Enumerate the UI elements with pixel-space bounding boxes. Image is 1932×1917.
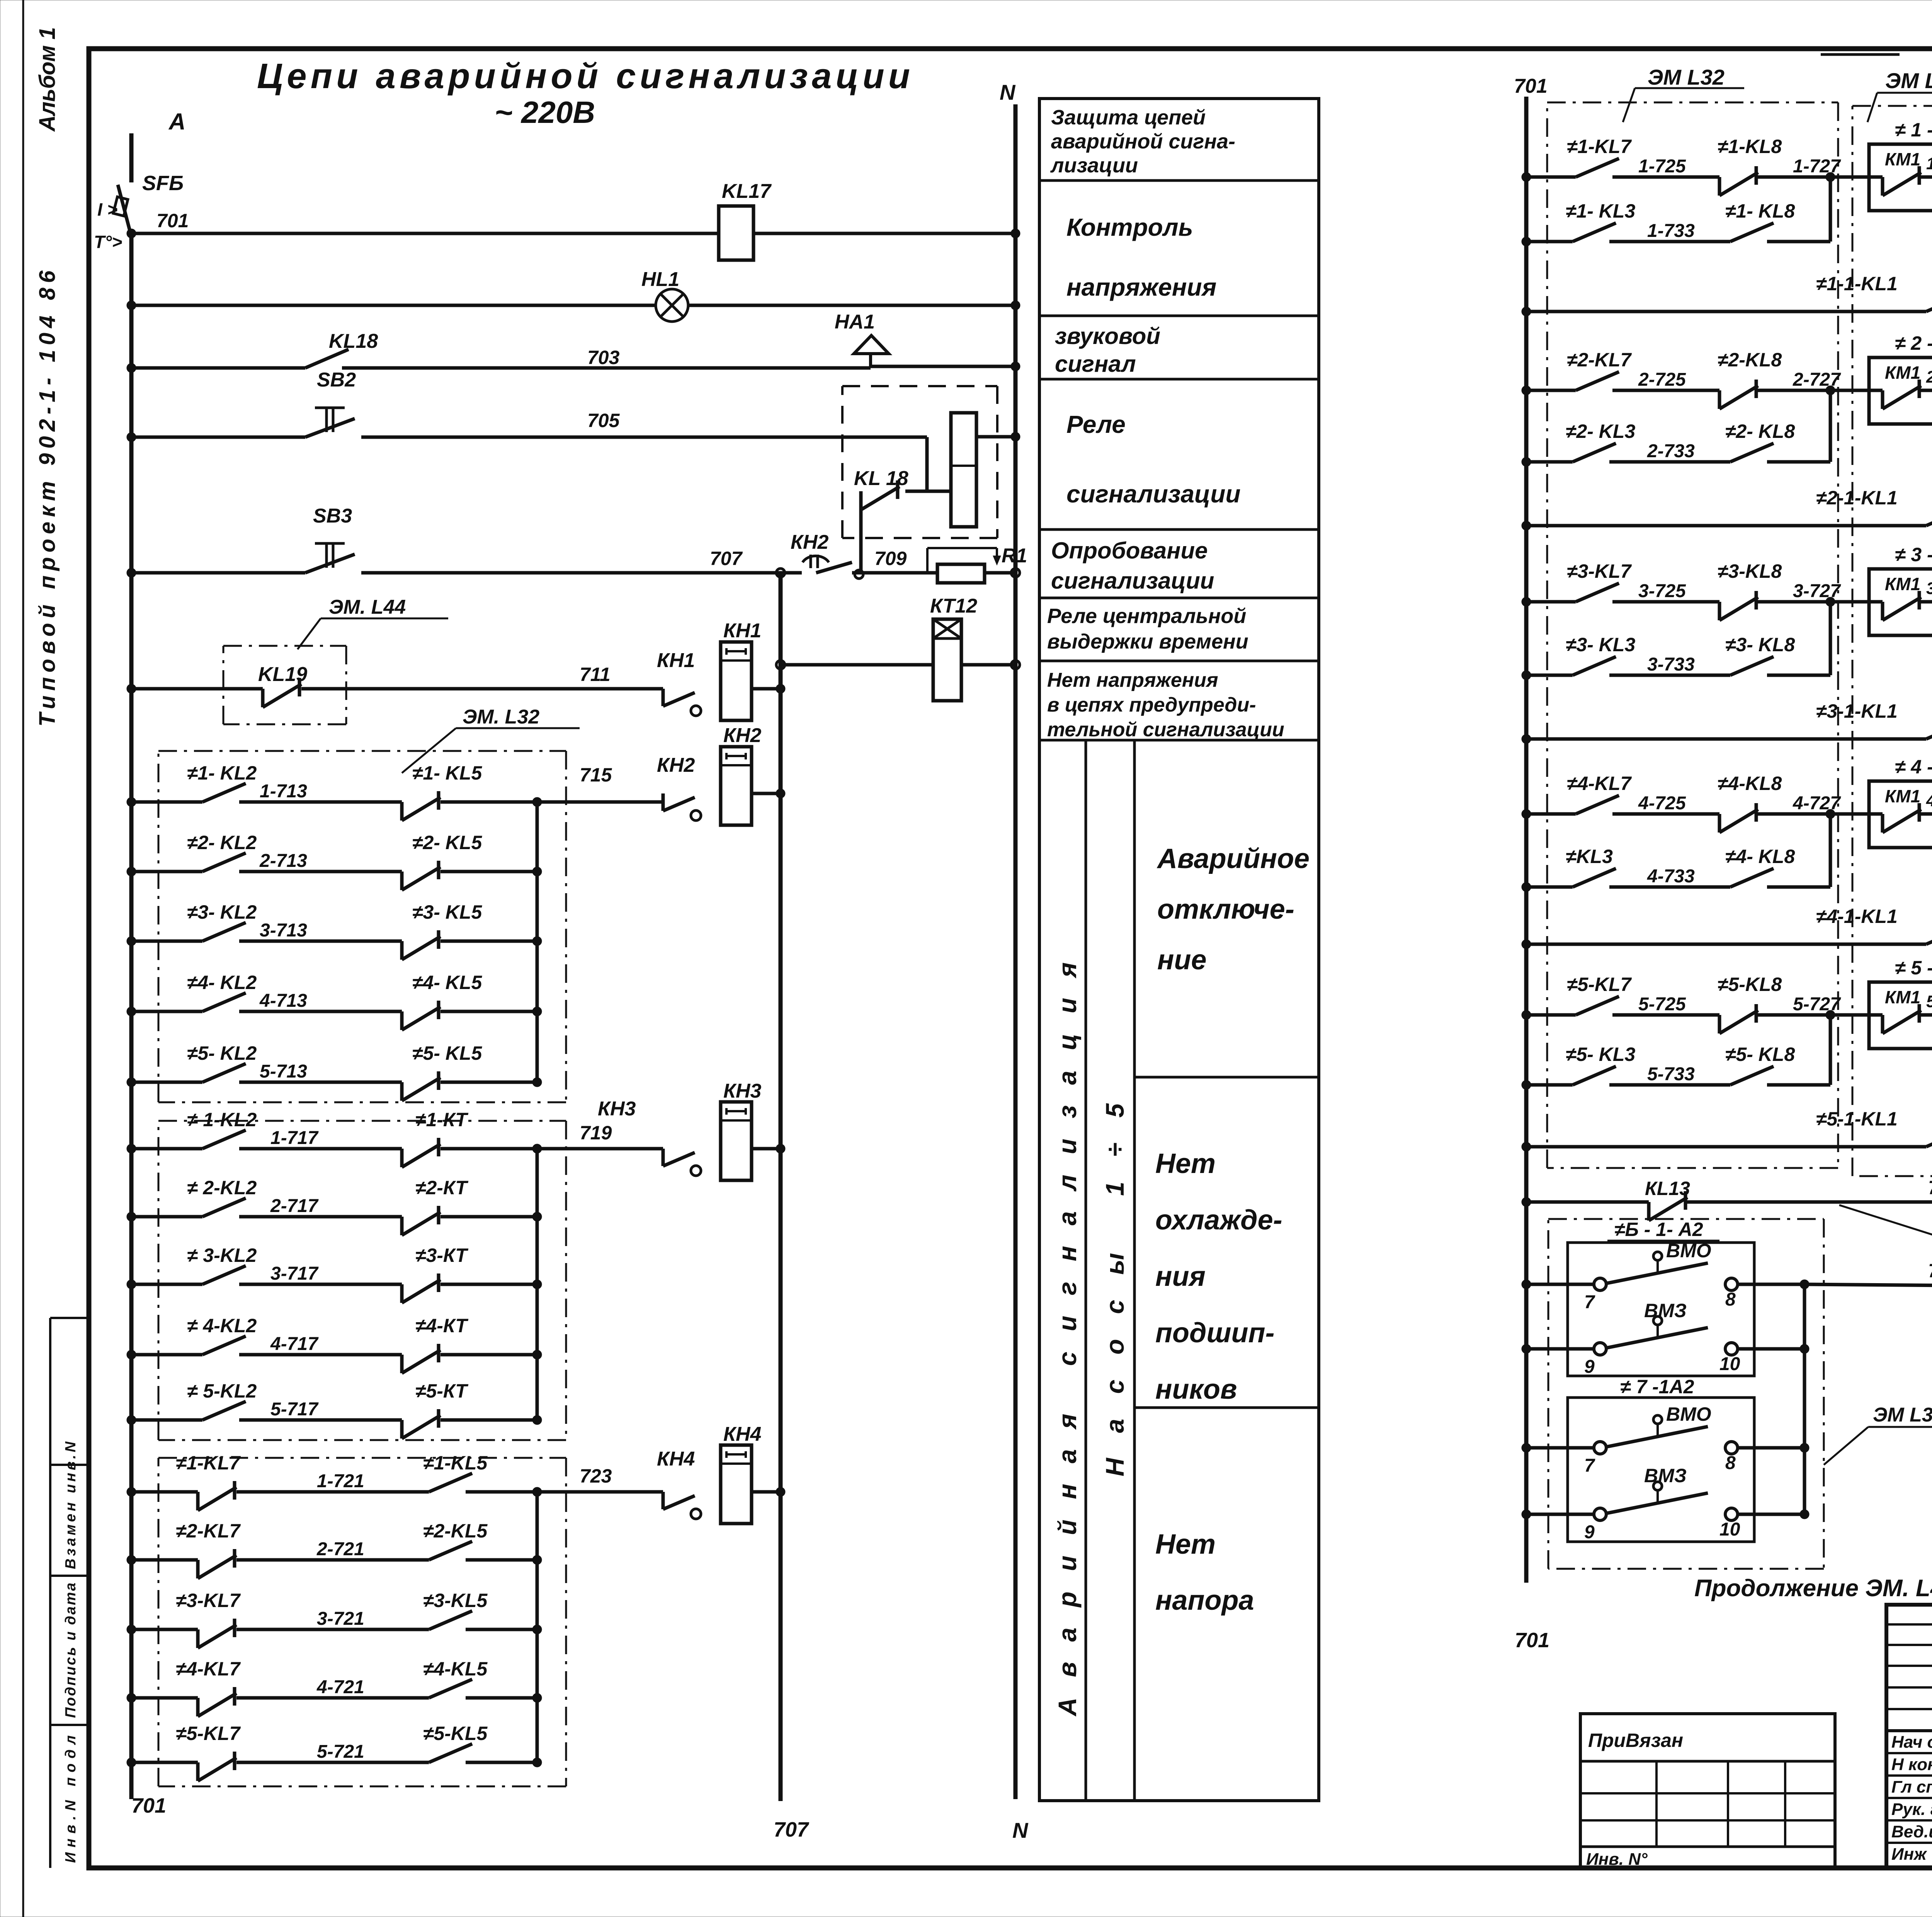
svg-text:КТ12: КТ12	[930, 595, 977, 617]
label ЭМ.L44 left	[298, 596, 448, 649]
svg-text:SFБ: SFБ	[142, 172, 184, 195]
button KН3	[663, 1102, 785, 1180]
svg-text:КН1: КН1	[723, 620, 761, 642]
label #3-KL8 upper	[1718, 560, 1782, 582]
svg-text:701: 701	[1514, 75, 1548, 97]
svg-text:НА1: НА1	[835, 311, 875, 333]
svg-text:ВМЗ: ВМЗ	[1644, 1465, 1687, 1486]
left margin label: Взамен инв.N	[63, 1441, 79, 1569]
svg-text:SB3: SB3	[313, 505, 352, 527]
node 709	[855, 570, 863, 579]
label #1-KL8 lower	[1725, 200, 1795, 222]
text Защита цепей	[1050, 106, 1235, 177]
label ЭМ L37	[1824, 1404, 1932, 1465]
svg-text:715: 715	[580, 764, 612, 786]
svg-text:Нет: Нет	[1155, 1529, 1216, 1560]
svg-text:HL1: HL1	[641, 268, 679, 291]
label #4-1-A1	[1895, 756, 1932, 778]
svg-text:N: N	[1000, 80, 1016, 104]
wire ВМО g6	[1522, 1252, 1809, 1290]
label #4-KL3	[1566, 846, 1613, 867]
label 4-713	[259, 991, 307, 1011]
label #5-KL8 upper	[1718, 974, 1782, 995]
svg-text:5-721: 5-721	[317, 1742, 364, 1762]
middle table row line 7	[1039, 739, 1319, 742]
svg-text:≠1- KL8: ≠1- KL8	[1725, 200, 1795, 222]
text Аварийная сигнализация (mid rotated)	[1053, 962, 1082, 1717]
contact KL18	[305, 349, 349, 368]
label KL18	[329, 330, 378, 352]
svg-text:≠4- KL5: ≠4- KL5	[412, 972, 482, 993]
svg-text:≠4-1-KL1: ≠4-1-KL1	[1816, 906, 1898, 927]
label Продолжение ЭМ.L44	[1694, 1575, 1932, 1602]
contactor box #3-1-A1	[1869, 569, 1932, 635]
label #1-1-KL1	[1816, 273, 1898, 295]
label #7-1A2	[1613, 1376, 1725, 1398]
svg-text:Реле центральной: Реле центральной	[1047, 604, 1246, 628]
svg-text:1-725: 1-725	[1638, 156, 1686, 177]
label #1-KL5 (721)	[423, 1452, 488, 1474]
label N top	[1000, 80, 1016, 104]
svg-text:ВМЗ: ВМЗ	[1644, 1300, 1687, 1321]
label ВМЗ g6	[1644, 1300, 1687, 1321]
label SB2	[317, 369, 356, 391]
label 3-729	[1926, 579, 1932, 598]
wire 3-721	[127, 1611, 542, 1648]
label I>	[97, 199, 117, 220]
label #4-KL8 upper	[1718, 773, 1782, 794]
label ЭМ.L32 left	[402, 706, 580, 773]
svg-text:Нет напряжения: Нет напряжения	[1047, 669, 1218, 691]
svg-text:сигнализации: сигнализации	[1051, 568, 1214, 594]
svg-text:4-721: 4-721	[316, 1677, 364, 1697]
svg-text:7: 7	[1584, 1456, 1595, 1476]
label HL1	[641, 268, 679, 291]
svg-text:≠ 5-KL2: ≠ 5-KL2	[187, 1380, 257, 1402]
middle table row line 6	[1039, 660, 1319, 662]
svg-text:≠Б - 1- А2: ≠Б - 1- А2	[1614, 1219, 1703, 1240]
relay coil KL17	[719, 206, 753, 260]
wire HL1	[127, 301, 1020, 310]
label 701	[156, 210, 189, 232]
wire 2-733	[1522, 386, 1835, 466]
svg-text:напряжения: напряжения	[1066, 273, 1216, 301]
label 711	[580, 664, 611, 685]
svg-text:1-713: 1-713	[260, 781, 307, 802]
label #2-1-A1	[1895, 332, 1932, 354]
wire 703	[127, 362, 1020, 373]
wire 4-721	[127, 1679, 542, 1716]
svg-text:≠3-KL7: ≠3-KL7	[176, 1590, 241, 1611]
svg-text:≠5-КТ: ≠5-КТ	[415, 1380, 469, 1402]
label #2-KL5 (713)	[412, 832, 482, 853]
svg-text:≠2-KL7: ≠2-KL7	[176, 1520, 241, 1542]
label 4-725	[1638, 793, 1686, 814]
svg-text:1-717: 1-717	[270, 1128, 319, 1148]
label KН2 contact	[657, 754, 695, 776]
svg-text:3-733: 3-733	[1647, 654, 1695, 675]
title: Цепи аварийной сигнализации	[257, 56, 910, 96]
label #3-KL5 (721)	[423, 1590, 488, 1611]
label #4-KL5 (713)	[412, 972, 482, 993]
svg-text:≠2-1-KL1: ≠2-1-KL1	[1816, 487, 1898, 509]
svg-text:ников: ников	[1155, 1374, 1237, 1405]
svg-text:≠5- KL3: ≠5- KL3	[1566, 1044, 1635, 1065]
svg-text:Инв. N°: Инв. N°	[1586, 1850, 1648, 1869]
wire into KL18 coil	[927, 437, 951, 491]
label 1-733	[1647, 221, 1695, 241]
svg-text:≠ 7 -1А2: ≠ 7 -1А2	[1620, 1376, 1694, 1398]
label #1-KL5 (713)	[412, 762, 482, 784]
resistor R1	[927, 548, 1001, 583]
label R1	[1002, 545, 1027, 567]
label KН2 box	[723, 724, 762, 747]
label ЭМ L36	[1839, 1205, 1932, 1244]
left margin label: Типовой проект	[35, 270, 60, 727]
svg-text:Реле: Реле	[1066, 410, 1126, 438]
dash-dot box ЭМ L32 right	[1547, 102, 1838, 1168]
svg-text:707: 707	[774, 1818, 810, 1841]
subtitle: ~220В	[495, 95, 595, 129]
svg-text:ПриВязан: ПриВязан	[1588, 1730, 1683, 1751]
svg-text:1-727: 1-727	[1793, 156, 1841, 177]
svg-text:Опробование: Опробование	[1051, 538, 1208, 564]
svg-text:5-733: 5-733	[1647, 1064, 1695, 1084]
label SB3	[313, 505, 352, 527]
label 705	[587, 410, 620, 431]
dash-dot box ЭМ.L32 left	[158, 751, 566, 1102]
svg-text:3-713: 3-713	[260, 920, 307, 941]
wire coil to N	[976, 432, 1020, 441]
svg-text:4-717: 4-717	[270, 1334, 319, 1354]
label 8 g7	[1725, 1453, 1736, 1473]
wire 5-725	[1522, 996, 1869, 1033]
svg-text:в цепях предупреди-: в цепях предупреди-	[1047, 694, 1256, 716]
label KM1 g3	[1885, 574, 1920, 594]
svg-text:Альбом 1: Альбом 1	[35, 27, 60, 132]
label 5-727	[1793, 994, 1841, 1015]
svg-text:≠3-KL8: ≠3-KL8	[1718, 560, 1782, 582]
label #2-KL8 upper	[1718, 349, 1782, 371]
svg-text:KL18: KL18	[329, 330, 378, 352]
label 3-713	[260, 920, 307, 941]
label #5-KL2 (717)	[187, 1380, 257, 1402]
svg-text:КМ1: КМ1	[1885, 574, 1920, 594]
svg-text:≠2- KL5: ≠2- KL5	[412, 832, 482, 853]
label #5-1-A1	[1895, 957, 1932, 979]
label 709	[874, 548, 907, 569]
label N bottom	[1012, 1818, 1029, 1842]
svg-text:≠5- KL2: ≠5- KL2	[187, 1042, 257, 1064]
svg-text:≠5- KL5: ≠5- KL5	[412, 1042, 482, 1064]
left margin label: Альбом 1	[35, 27, 60, 132]
dashed box KL18 relay	[842, 386, 997, 538]
svg-text:≠5- KL8: ≠5- KL8	[1725, 1044, 1795, 1065]
label 8 g6	[1725, 1289, 1736, 1310]
limit switch box #7-1A2	[1568, 1398, 1754, 1542]
svg-text:701: 701	[156, 210, 189, 232]
svg-text:≠ 4 - 1 - А1: ≠ 4 - 1 - А1	[1895, 756, 1932, 778]
middle table row line 2	[1039, 315, 1319, 317]
label 737	[1928, 1260, 1932, 1282]
svg-text:9: 9	[1584, 1357, 1595, 1377]
svg-text:≠4-КТ: ≠4-КТ	[415, 1315, 469, 1336]
svg-text:Гл спец: Гл спец	[1891, 1777, 1932, 1796]
wire 709	[859, 571, 1015, 575]
wire 735	[1522, 1191, 1932, 1221]
staff row Инж	[1891, 1845, 1932, 1864]
wire 705	[127, 432, 927, 442]
label KН3 box	[723, 1080, 762, 1102]
svg-text:КН4: КН4	[723, 1423, 762, 1445]
button KН1	[663, 642, 785, 720]
label 2-727	[1793, 369, 1841, 390]
limit switch box #6-1-A2	[1568, 1243, 1754, 1376]
label 707 bottom middle	[774, 1818, 810, 1841]
svg-text:КН4: КН4	[657, 1448, 695, 1470]
svg-text:А: А	[168, 109, 185, 134]
svg-text:≠1- KL3: ≠1- KL3	[1566, 200, 1635, 222]
svg-text:сигнал: сигнал	[1055, 351, 1136, 377]
label KL18 coil	[854, 467, 908, 490]
middle table row line 3	[1039, 378, 1319, 381]
svg-text:707: 707	[710, 548, 743, 569]
label 4-727	[1793, 793, 1841, 814]
svg-text:10: 10	[1719, 1519, 1740, 1540]
svg-text:≠1-КТ: ≠1-КТ	[415, 1109, 469, 1130]
wire 5-721	[127, 1744, 542, 1781]
svg-text:КМ1: КМ1	[1885, 363, 1920, 383]
text Реле сигнализации	[1066, 410, 1241, 508]
pushbutton SB2	[305, 408, 355, 437]
attachment box	[1580, 1714, 1835, 1868]
dash-dot box ЭМ L44 right	[1548, 1219, 1824, 1569]
svg-text:≠ 1 - 1 - А1: ≠ 1 - 1 - А1	[1895, 119, 1932, 141]
wire 4-725	[1522, 795, 1869, 833]
svg-text:≠ 3-KL2: ≠ 3-KL2	[187, 1245, 257, 1266]
staff row Гл спец	[1891, 1777, 1932, 1796]
label #6-1-A2	[1607, 1219, 1719, 1241]
bus A vertical	[129, 133, 134, 1799]
label KL13	[1645, 1178, 1690, 1199]
svg-text:5-725: 5-725	[1638, 994, 1686, 1015]
svg-text:3-729: 3-729	[1926, 579, 1932, 598]
wire 1-713	[127, 783, 663, 821]
left margin stamp separators	[50, 1318, 89, 1868]
label 4-721	[316, 1677, 364, 1697]
svg-text:KL19: KL19	[258, 663, 307, 686]
svg-text:≠KL3: ≠KL3	[1566, 846, 1613, 867]
label #1-KL2 (713)	[187, 762, 257, 784]
label 3-725	[1638, 581, 1686, 601]
label 1-717	[270, 1128, 319, 1148]
node KT12 left	[776, 661, 785, 669]
svg-text:≠ 2 - 1 - А1: ≠ 2 - 1 - А1	[1895, 332, 1932, 354]
svg-text:5-713: 5-713	[260, 1061, 307, 1082]
wire 2-717	[127, 1198, 542, 1235]
svg-text:Н контр: Н контр	[1891, 1755, 1932, 1774]
svg-text:2-713: 2-713	[259, 851, 307, 871]
breaker SFB blade	[113, 185, 131, 237]
svg-text:SB2: SB2	[317, 369, 356, 391]
svg-text:Подпись и дата: Подпись и дата	[63, 1583, 79, 1718]
middle table row line 4	[1039, 528, 1319, 531]
label #4-KL2 (717)	[187, 1315, 257, 1336]
left margin label: Подпись и дата	[63, 1583, 79, 1718]
wire 3-717	[127, 1266, 542, 1303]
dash-dot box 717 group	[158, 1121, 566, 1440]
contactor box #2-1-A1	[1869, 358, 1932, 424]
label 2-721	[316, 1539, 364, 1559]
svg-text:3-717: 3-717	[270, 1263, 319, 1284]
label 3-733	[1647, 654, 1695, 675]
label 4-729	[1926, 791, 1932, 810]
svg-text:КL13: КL13	[1645, 1178, 1690, 1199]
svg-text:≠ 2-KL2: ≠ 2-KL2	[187, 1177, 257, 1199]
label KН4 contact	[657, 1448, 695, 1470]
svg-text:2-727: 2-727	[1793, 369, 1841, 390]
svg-text:напора: напора	[1155, 1585, 1254, 1616]
svg-text:≠ 4-KL2: ≠ 4-KL2	[187, 1315, 257, 1336]
label #2-KL8 lower	[1725, 421, 1795, 442]
label 701 right bottom	[1515, 1629, 1549, 1652]
wire 4-717	[127, 1336, 542, 1373]
svg-text:3-725: 3-725	[1638, 581, 1686, 601]
svg-text:709: 709	[874, 548, 907, 569]
svg-text:2-733: 2-733	[1647, 441, 1695, 461]
wire KL1 g4	[1522, 926, 1932, 949]
label #1-KT	[415, 1109, 469, 1130]
svg-text:≠4- KL8: ≠4- KL8	[1725, 846, 1795, 867]
label KM1 g1	[1885, 149, 1920, 169]
text Насосы 1÷5 (mid rotated)	[1100, 1103, 1129, 1476]
label SFБ	[142, 172, 184, 195]
text Нет напора	[1155, 1529, 1254, 1616]
svg-text:≠2-КТ: ≠2-КТ	[415, 1177, 469, 1199]
svg-text:2-729: 2-729	[1926, 368, 1932, 386]
svg-text:≠5-KL5: ≠5-KL5	[423, 1723, 488, 1744]
label #5-KL7 (721)	[176, 1723, 241, 1744]
svg-text:ЭМ L35: ЭМ L35	[1885, 68, 1932, 93]
label 735	[1928, 1177, 1932, 1199]
horn HA1	[854, 335, 889, 366]
svg-text:1-733: 1-733	[1647, 221, 1695, 241]
svg-text:Цепи аварийной сигнализации: Цепи аварийной сигнализации	[257, 56, 910, 96]
wire 1-733	[1522, 172, 1835, 246]
label KM1 g5	[1885, 987, 1920, 1007]
svg-text:719: 719	[580, 1122, 612, 1144]
label KН1 contact	[657, 649, 695, 672]
label #1-1-A1	[1895, 119, 1932, 141]
contactor box #5-1-A1	[1869, 982, 1932, 1049]
label #3-1-A1	[1895, 544, 1932, 565]
label 723	[580, 1465, 612, 1487]
svg-text:≠ 1-KL2: ≠ 1-KL2	[187, 1109, 257, 1130]
paper edge line	[22, 0, 24, 1917]
label KН1 box	[723, 620, 761, 642]
svg-text:701: 701	[1515, 1629, 1549, 1652]
label #3-KL2 (717)	[187, 1245, 257, 1266]
text Опробование сигнализации	[1051, 538, 1214, 594]
svg-text:Аварийное: Аварийное	[1156, 843, 1310, 874]
svg-text:735: 735	[1928, 1177, 1932, 1199]
label #3-KL5 (713)	[412, 901, 482, 923]
wire 1-721	[127, 1473, 663, 1510]
label #3-KL7 (721)	[176, 1590, 241, 1611]
svg-text:2-721: 2-721	[316, 1539, 364, 1559]
wire ВМЗ g7	[1522, 1482, 1809, 1520]
svg-text:КН2: КН2	[723, 724, 762, 747]
label #2-KL7 (721)	[176, 1520, 241, 1542]
dash-dot box ЭМ.L44 left	[223, 646, 346, 724]
svg-text:2-725: 2-725	[1638, 369, 1686, 390]
svg-text:Рук. гр: Рук. гр	[1891, 1800, 1932, 1819]
svg-text:ние: ние	[1157, 945, 1207, 976]
label 2-725	[1638, 369, 1686, 390]
wire 711	[127, 684, 663, 693]
label 2-717	[270, 1196, 319, 1216]
label 2-713	[259, 851, 307, 871]
label #1-KL3	[1566, 200, 1635, 222]
svg-text:≠5-1-KL1: ≠5-1-KL1	[1816, 1108, 1898, 1130]
label ЭМ L35	[1867, 68, 1932, 122]
dash-dot box ЭМ L35	[1852, 106, 1932, 1176]
svg-text:аварийной сигна-: аварийной сигна-	[1051, 130, 1235, 153]
svg-text:711: 711	[580, 664, 611, 685]
svg-text:723: 723	[580, 1465, 612, 1487]
wire KT12	[781, 663, 1015, 667]
svg-text:КН1: КН1	[657, 649, 695, 672]
label #1-KL8 upper	[1718, 136, 1782, 157]
label #4-KL7 (725)	[1567, 773, 1632, 794]
label #4-1-KL1	[1816, 906, 1898, 927]
label 5-733	[1647, 1064, 1695, 1084]
svg-text:5-717: 5-717	[270, 1399, 319, 1420]
svg-text:≠3-КТ: ≠3-КТ	[415, 1245, 469, 1266]
text Звуковой сигнал	[1055, 323, 1160, 377]
label #2-KL2 (713)	[187, 832, 257, 853]
label ВМЗ g7	[1644, 1465, 1687, 1486]
wire KL1 g3	[1522, 720, 1932, 744]
svg-text:тельной сигнализации: тельной сигнализации	[1047, 718, 1284, 741]
svg-text:4-727: 4-727	[1793, 793, 1841, 814]
label #5-KL5 (713)	[412, 1042, 482, 1064]
svg-text:КМ1: КМ1	[1885, 149, 1920, 169]
svg-text:Т°>: Т°>	[94, 232, 122, 252]
label HA1	[835, 311, 875, 333]
wire 3-713	[127, 923, 542, 960]
label KН2 top	[791, 531, 829, 553]
title block outer	[1886, 1605, 1932, 1868]
middle table outer	[1039, 99, 1319, 1801]
wire 2-713	[127, 853, 542, 890]
svg-text:лизации: лизации	[1050, 154, 1138, 177]
label 5-713	[260, 1061, 307, 1082]
svg-text:KL17: KL17	[722, 180, 772, 203]
label 5-725	[1638, 994, 1686, 1015]
svg-text:4-733: 4-733	[1647, 866, 1695, 887]
svg-text:≠2- KL8: ≠2- KL8	[1725, 421, 1795, 442]
svg-text:≠4-KL8: ≠4-KL8	[1718, 773, 1782, 794]
label 3-721	[317, 1609, 364, 1629]
label Привязан	[1588, 1730, 1683, 1751]
contactor box #1-1-A1	[1869, 144, 1932, 211]
label #1-KL2 (717)	[187, 1109, 257, 1130]
label 719	[580, 1122, 612, 1144]
label 3-717	[270, 1263, 319, 1284]
svg-text:Нач отд: Нач отд	[1891, 1733, 1932, 1752]
wire KL1 g1	[1522, 293, 1932, 316]
